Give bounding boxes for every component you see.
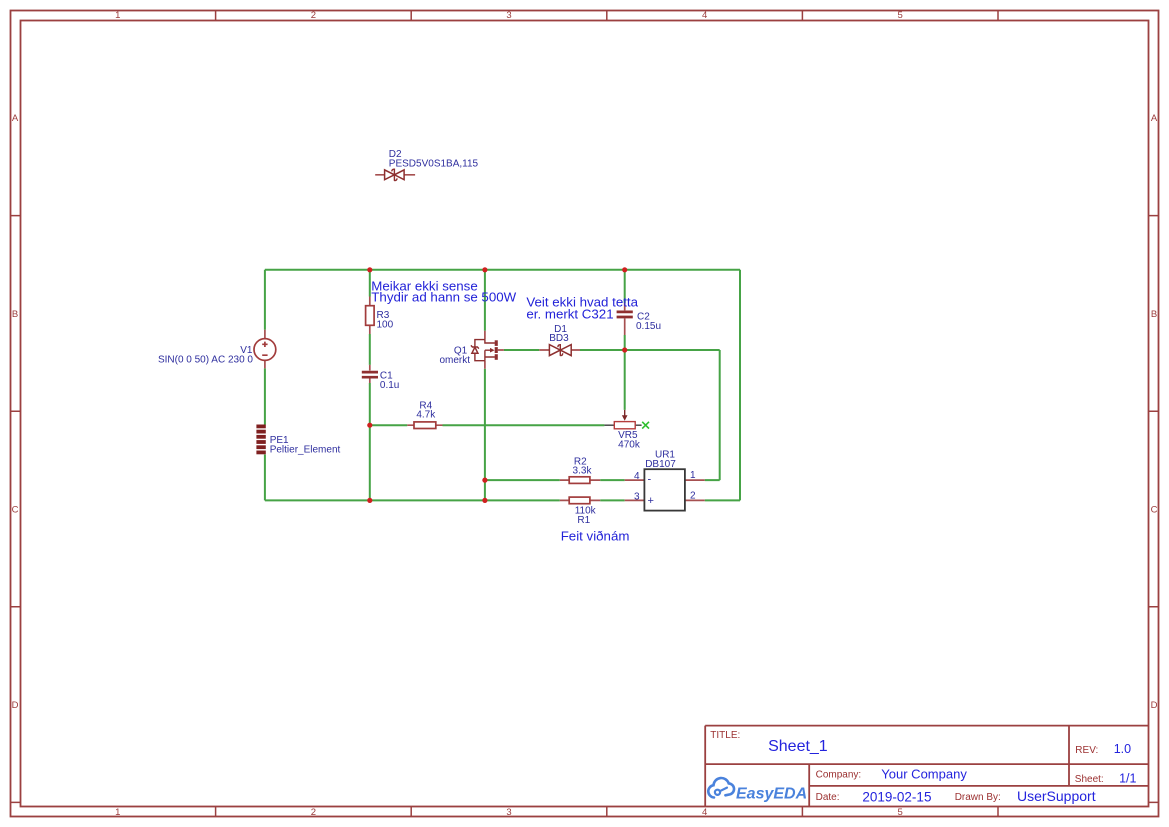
- svg-text:1: 1: [690, 470, 696, 481]
- bridge rectifier UR1: [625, 469, 705, 510]
- wire R3/C1 column: [369, 270, 371, 501]
- svg-text:B: B: [1151, 309, 1157, 320]
- title block Company: [816, 767, 968, 782]
- label R2: [573, 456, 593, 476]
- pin number 4: [634, 471, 640, 482]
- svg-text:Drawn By:: Drawn By:: [955, 792, 1001, 803]
- label R3: [377, 310, 394, 331]
- junction R2 row: [482, 478, 487, 483]
- wire R2 row: [485, 479, 625, 481]
- svg-text:TITLE:: TITLE:: [710, 730, 740, 741]
- pin sign plus: [648, 495, 654, 507]
- svg-text:+: +: [648, 495, 654, 507]
- title block TITLE:: [710, 730, 740, 741]
- svg-text:4: 4: [702, 10, 707, 21]
- junction D1 row: [622, 347, 627, 352]
- label D2: [389, 149, 479, 169]
- svg-text:2019-02-15: 2019-02-15: [862, 790, 931, 805]
- svg-text:2: 2: [311, 807, 316, 818]
- svg-text:SIN(0 0 50) AC 230 0: SIN(0 0 50) AC 230 0: [158, 354, 253, 365]
- svg-text:R1: R1: [577, 515, 590, 526]
- label R1: [575, 506, 597, 526]
- svg-text:Company:: Company:: [816, 770, 862, 781]
- pin sign minus: [648, 474, 652, 486]
- TVS diode D2: [375, 169, 415, 180]
- svg-text:3: 3: [506, 10, 511, 21]
- label PE1: [270, 435, 341, 455]
- svg-text:er. merkt C321: er. merkt C321: [526, 306, 613, 321]
- svg-text:100: 100: [377, 320, 394, 331]
- svg-text:A: A: [1151, 113, 1158, 124]
- frame column numbers bottom: [115, 807, 903, 818]
- svg-text:3.3k: 3.3k: [573, 466, 593, 477]
- label UR1: [645, 449, 676, 470]
- EasyEDA logo: [708, 778, 807, 803]
- annotation Veit: [526, 294, 638, 321]
- label D1: [549, 324, 569, 344]
- svg-text:UserSupport: UserSupport: [1017, 788, 1096, 804]
- wire top net: [265, 269, 740, 271]
- svg-text:1.0: 1.0: [1114, 742, 1131, 756]
- svg-text:2: 2: [690, 490, 696, 501]
- wire C2/VR5 column: [624, 270, 626, 410]
- label R4: [416, 400, 436, 420]
- svg-text:B: B: [12, 309, 18, 320]
- junction top-Q1: [482, 267, 487, 272]
- capacitor C1: [362, 365, 378, 383]
- svg-text:1: 1: [115, 10, 120, 21]
- title block Date: [816, 790, 932, 805]
- svg-text:D: D: [1151, 700, 1158, 711]
- svg-text:0.15u: 0.15u: [636, 321, 661, 332]
- svg-text:Thydir ad hann se 500W: Thydir ad hann se 500W: [371, 290, 516, 305]
- diode D1: [539, 345, 580, 356]
- svg-text:Your Company: Your Company: [881, 767, 967, 782]
- junction top-R3: [367, 267, 372, 272]
- voltage source V1: [254, 330, 276, 369]
- label C1: [380, 371, 399, 391]
- junction bottom-R3col: [367, 498, 372, 503]
- frame row letters right: [1151, 113, 1158, 711]
- svg-text:DB107: DB107: [645, 459, 676, 470]
- svg-text:EasyEDA: EasyEDA: [736, 786, 807, 803]
- title block Sheet: [1075, 772, 1137, 786]
- svg-text:D: D: [12, 700, 19, 711]
- svg-text:PESD5V0S1BA,115: PESD5V0S1BA,115: [389, 159, 479, 170]
- mosfet Q1: [471, 331, 504, 369]
- svg-text:REV:: REV:: [1075, 745, 1098, 756]
- svg-text:3: 3: [506, 807, 511, 818]
- wire right vertical pin2: [705, 270, 740, 501]
- title block lines: [705, 726, 1148, 807]
- resistor R2: [560, 477, 600, 484]
- junction top-C2: [622, 267, 627, 272]
- svg-text:C: C: [1151, 504, 1158, 515]
- svg-text:Feit viðnám: Feit viðnám: [561, 528, 630, 543]
- svg-text:Sheet_1: Sheet_1: [768, 738, 828, 755]
- title block Drawn By: [955, 788, 1096, 804]
- svg-text:1: 1: [115, 807, 120, 818]
- annotation Meikar: [371, 278, 516, 304]
- svg-text:2: 2: [311, 10, 316, 21]
- wire Q1 column: [484, 270, 486, 501]
- svg-text:Peltier_Element: Peltier_Element: [270, 444, 341, 455]
- svg-text:4.7k: 4.7k: [416, 410, 436, 421]
- svg-text:5: 5: [898, 10, 903, 21]
- svg-text:Date:: Date:: [816, 792, 840, 803]
- pin number 1: [690, 470, 696, 481]
- junction bottom-Q1col: [482, 498, 487, 503]
- wire left vertical (V1 branch): [264, 270, 266, 501]
- pin number 2: [690, 490, 696, 501]
- svg-text:0.1u: 0.1u: [380, 380, 399, 391]
- svg-text:5: 5: [898, 807, 903, 818]
- potentiometer VR5: [604, 410, 641, 429]
- svg-text:Sheet:: Sheet:: [1075, 774, 1104, 785]
- junction R4 row: [367, 423, 372, 428]
- capacitor C2: [617, 303, 633, 335]
- wire R4 row: [370, 424, 605, 426]
- resistor R4: [407, 422, 442, 429]
- resistor R3: [366, 297, 375, 335]
- svg-text:1/1: 1/1: [1119, 772, 1136, 786]
- no-connect X on VR5: [642, 422, 649, 429]
- svg-text:-: -: [648, 474, 652, 486]
- label C2: [636, 311, 661, 331]
- svg-text:A: A: [12, 113, 19, 124]
- svg-text:3: 3: [634, 491, 640, 502]
- peltier element PE1: [256, 425, 265, 455]
- pin number 3: [634, 491, 640, 502]
- frame column numbers top: [115, 10, 903, 21]
- svg-text:C: C: [12, 504, 19, 515]
- svg-text:4: 4: [702, 807, 707, 818]
- title block REV: [1075, 742, 1131, 756]
- label Q1: [439, 345, 470, 366]
- resistor R1: [560, 497, 600, 504]
- svg-text:4: 4: [634, 471, 640, 482]
- wire bottom net: [265, 499, 625, 501]
- wire D1 row: [504, 349, 720, 351]
- svg-text:470k: 470k: [618, 440, 641, 451]
- svg-text:omerkt: omerkt: [439, 355, 470, 366]
- svg-text:BD3: BD3: [549, 333, 569, 344]
- title block sheet name: [768, 738, 828, 755]
- label V1: [158, 345, 253, 365]
- wire pin1 vertical: [705, 350, 720, 480]
- label VR5: [618, 430, 641, 451]
- frame row letters left: [12, 113, 19, 711]
- annotation Feit: [561, 528, 630, 543]
